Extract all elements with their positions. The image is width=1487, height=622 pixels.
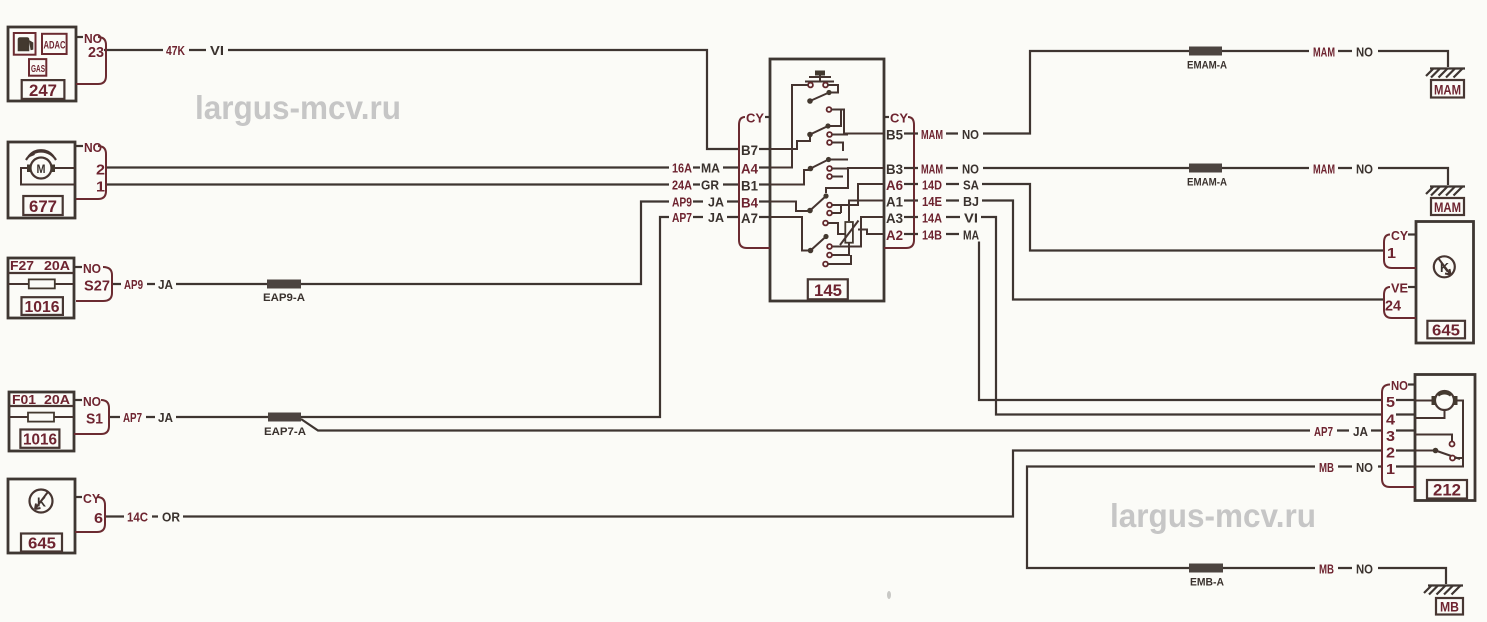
motor internal wiring [1415, 400, 1433, 402]
145 interior wires right [826, 168, 884, 247]
wire label NO (bottom) [1352, 562, 1378, 577]
svg-text:F27: F27 [10, 258, 34, 273]
svg-text:NO: NO [1356, 460, 1373, 475]
145 interior: switch lever 3 [808, 157, 848, 179]
ground MB (bottom right) [1424, 586, 1463, 615]
svg-text:A3: A3 [886, 210, 903, 226]
svg-text:24: 24 [1385, 298, 1402, 315]
212 label box [1427, 480, 1467, 499]
svg-text:MAM: MAM [1434, 199, 1461, 215]
pin A6 [904, 183, 914, 185]
component 645 (right) control unit [1416, 222, 1474, 344]
svg-text:14E: 14E [922, 194, 942, 209]
svg-text:S27: S27 [84, 278, 110, 295]
svg-text:A7: A7 [741, 210, 758, 226]
svg-text:NO: NO [962, 162, 979, 177]
svg-text:AP9: AP9 [124, 277, 143, 292]
wire label NO (top right) [1352, 45, 1378, 60]
1016 label box [22, 297, 63, 315]
ground MAM (top right) [1426, 69, 1465, 98]
pin A2 [904, 233, 914, 235]
wire MB-NO from 212 pin 1 to EMB-A [1027, 467, 1446, 585]
connector NO / pins 2,1 of 677 [76, 140, 106, 199]
svg-text:1016: 1016 [23, 432, 57, 449]
wire label MB (212 pin 1) [1315, 460, 1338, 475]
svg-text:2: 2 [96, 162, 105, 179]
wire 16A-MA from 677 pin 2 to 145 pin A4 [106, 166, 739, 168]
component 677 wiper motor [8, 142, 75, 218]
wire MAM-NO from 145 pin B5 to ground MAM [914, 51, 1448, 134]
wire label NO (B3) [958, 162, 983, 177]
motor wiring to pins [55, 167, 75, 169]
wire 14E-BJ from 145 pin A1 to 645 pin 24 [914, 201, 1384, 300]
svg-text:B5: B5 [886, 127, 903, 143]
svg-text:MB: MB [1440, 599, 1459, 615]
svg-text:CY: CY [83, 491, 100, 506]
wire label BJ [959, 194, 982, 209]
wire label JA (at 145 A7) [703, 210, 727, 225]
svg-text:EMB-A: EMB-A [1190, 577, 1224, 589]
ground MAM (second right) [1426, 187, 1465, 216]
1016 label box [20, 430, 59, 448]
wire MAM-NO from 145 pin B3 to ground MAM [914, 168, 1448, 185]
145 interior wires left [770, 85, 810, 251]
connector CY / pin 6 of 645 [75, 491, 105, 532]
wire label JA (left) [155, 277, 176, 292]
motor M circle [31, 158, 52, 179]
247 ADAC box [42, 34, 67, 54]
component F27 20A fuse 1016 [8, 258, 74, 318]
svg-text:MAM: MAM [1313, 45, 1335, 60]
wire label 14C [124, 510, 152, 525]
component 212 rear wiper motor [1415, 375, 1475, 501]
pin B1 [759, 183, 770, 185]
wire label AP7 (212 pin 3) [1310, 424, 1337, 439]
247 label box [22, 80, 65, 99]
K circle glyph [30, 490, 53, 513]
wire label JA (at 145 B4) [703, 195, 727, 210]
wire label MAM (second right) [1309, 162, 1338, 177]
pin A4 [759, 166, 770, 168]
svg-text:MB: MB [1319, 562, 1334, 577]
svg-text:20A: 20A [44, 392, 71, 407]
wire label 14D [918, 178, 946, 193]
splice EAP9-A [263, 280, 305, 305]
145 interior: switch lever 1 [807, 85, 884, 134]
svg-text:VI: VI [964, 211, 978, 226]
svg-text:23: 23 [88, 44, 104, 61]
svg-text:NO: NO [1356, 45, 1373, 60]
pin A1 [904, 199, 914, 201]
wire label MA [700, 161, 723, 176]
svg-text:CY: CY [1391, 228, 1408, 243]
svg-text:JA: JA [708, 210, 725, 225]
svg-text:VI: VI [210, 43, 224, 58]
svg-text:145: 145 [814, 281, 842, 300]
wire label JA (left S1) [155, 410, 176, 425]
connector CY / pin 1 of 645 right [1384, 228, 1416, 268]
wire AP7-JA branch from splice EAP7-A to 212 pin 3 [301, 419, 1382, 431]
wire AP7-JA from S1 to 145 pin A7 [110, 217, 739, 417]
svg-text:4: 4 [1386, 412, 1396, 429]
svg-text:S1: S1 [86, 411, 103, 428]
wire label MAM (B5) [918, 127, 946, 142]
145 interior: switch lever 2 [807, 110, 848, 152]
svg-text:A6: A6 [886, 177, 903, 193]
wire 14D-SA from 145 pin A6 to 645 pin 1 [914, 184, 1384, 251]
connector CY left of 145 [739, 111, 770, 249]
svg-text:JA: JA [158, 277, 174, 292]
park switch lever from pin 2 [1415, 450, 1433, 452]
svg-text:3: 3 [1386, 428, 1395, 445]
svg-text:VE: VE [1391, 281, 1408, 296]
wire 47K-VI from 247 pin 23 to 145 pin B7 [104, 50, 739, 149]
svg-text:14A: 14A [922, 211, 943, 226]
svg-text:EAP7-A: EAP7-A [264, 426, 306, 438]
wire label AP7 (at 145 A7) [669, 210, 693, 225]
fuse F27 symbol [8, 283, 74, 285]
splice EMB-A [1189, 564, 1224, 589]
pin B7 [759, 148, 770, 150]
svg-text:F01: F01 [12, 392, 36, 407]
svg-text:CY: CY [890, 111, 908, 126]
svg-text:EMAM-A: EMAM-A [1187, 60, 1227, 72]
svg-text:NO: NO [84, 140, 102, 155]
svg-text:MAM: MAM [1434, 82, 1461, 98]
145 interior: switch lever 4 [807, 193, 848, 234]
svg-text:247: 247 [29, 81, 57, 100]
145 interior: push switch top [805, 71, 834, 88]
svg-text:MAM: MAM [921, 162, 943, 177]
wire label NO (B5) [958, 127, 983, 142]
wire label 47K [163, 43, 189, 58]
pin B4 [759, 200, 770, 202]
svg-text:A2: A2 [886, 227, 903, 243]
svg-text:14D: 14D [922, 178, 942, 193]
connector VE / pin 24 of 645 right [1384, 281, 1416, 319]
wire label 16A [669, 161, 693, 176]
svg-text:677: 677 [29, 197, 57, 216]
645 label box [1427, 321, 1465, 339]
svg-text:NO: NO [1356, 162, 1373, 177]
connector NO / S1 [74, 394, 109, 434]
svg-text:20A: 20A [44, 258, 71, 273]
connector NO / pin 23 of 247 [76, 31, 106, 84]
svg-text:NO: NO [1356, 562, 1373, 577]
svg-text:OR: OR [162, 510, 181, 525]
svg-text:largus-mcv.ru: largus-mcv.ru [195, 89, 401, 126]
wire label JA (212 pin 3) [1349, 424, 1371, 439]
component 645 (bottom left) control unit [8, 479, 75, 553]
fuse F01 symbol [9, 416, 74, 418]
connector NO / pins 5,4,3,2,1 of 212 [1382, 378, 1415, 487]
component F01 20A fuse 1016 [9, 392, 74, 451]
svg-text:NO: NO [962, 127, 979, 142]
svg-text:1: 1 [96, 179, 105, 196]
svg-text:SA: SA [963, 178, 980, 193]
wire label 24A [669, 178, 693, 193]
svg-text:14B: 14B [922, 228, 942, 243]
svg-text:largus-mcv.ru: largus-mcv.ru [1110, 497, 1316, 534]
svg-text:JA: JA [708, 195, 725, 210]
svg-text:AP9: AP9 [672, 195, 692, 210]
wire 14A-VI from 145 pin A3 to 212 pin 4 [914, 217, 1382, 415]
svg-text:14C: 14C [127, 510, 149, 525]
svg-text:MB: MB [1319, 460, 1334, 475]
svg-text:B1: B1 [741, 178, 758, 194]
svg-text:1016: 1016 [25, 299, 60, 316]
677 label box [23, 196, 62, 215]
svg-text:1: 1 [1386, 461, 1395, 478]
svg-text:ADAC: ADAC [44, 40, 66, 52]
svg-text:A1: A1 [886, 194, 903, 210]
svg-text:AP7: AP7 [123, 410, 142, 425]
wire label OR [158, 510, 183, 525]
svg-text:645: 645 [28, 536, 56, 553]
wire label 14A [918, 211, 946, 226]
wire label MB (bottom) [1315, 562, 1338, 577]
247 pump pictogram box [14, 33, 36, 55]
svg-text:BJ: BJ [963, 194, 979, 209]
wire label 14E [918, 194, 946, 209]
645 label box [21, 534, 62, 552]
wire label AP9 (at 145) [669, 195, 693, 210]
park switch contact from pin 3 [1415, 435, 1452, 442]
wire label MAM (top right) [1309, 45, 1338, 60]
wire label 14B [918, 228, 946, 243]
svg-text:GAS: GAS [31, 64, 45, 75]
svg-text:NO: NO [1391, 378, 1408, 393]
svg-text:AP7: AP7 [672, 210, 692, 225]
wire label NO (second right) [1352, 162, 1378, 177]
wire 14C-OR from 645 pin 6 to 212 pin 2 [105, 451, 1382, 517]
svg-text:6: 6 [94, 510, 103, 527]
pin B5 [904, 132, 914, 134]
145 interior: resistor [832, 221, 859, 256]
wire label MA (A2) [959, 228, 982, 243]
145 label box [808, 279, 848, 299]
stray mark [887, 591, 891, 599]
wire label SA [959, 178, 982, 193]
svg-text:16A: 16A [672, 161, 693, 176]
svg-text:2: 2 [1386, 445, 1395, 462]
pin A7 [759, 216, 770, 218]
wire label AP7 (left) [120, 410, 146, 425]
wire 14B-MA from 145 pin A2 to 212 pin 5 [914, 234, 1382, 400]
svg-text:JA: JA [1353, 424, 1369, 439]
K circle glyph [1434, 256, 1455, 277]
wire label MAM (B3) [918, 162, 946, 177]
svg-text:JA: JA [158, 410, 174, 425]
145 interior: switch lever 5 [808, 234, 851, 267]
svg-text:M: M [37, 162, 46, 176]
wire label NO (212 pin 1) [1352, 460, 1378, 475]
connector CY right of 145 [884, 111, 914, 249]
svg-text:GR: GR [701, 178, 720, 193]
svg-text:MAM: MAM [1313, 162, 1335, 177]
wire label GR [700, 178, 723, 193]
wire AP9-JA from S27 to 145 pin B4 [112, 202, 739, 285]
splice EMAM-A (top) [1187, 47, 1227, 72]
svg-text:645: 645 [1432, 323, 1460, 340]
wire label VI [206, 43, 228, 58]
247 GAS box [29, 59, 46, 76]
svg-text:B4: B4 [741, 195, 758, 211]
svg-text:EMAM-A: EMAM-A [1187, 177, 1227, 189]
svg-text:24A: 24A [672, 178, 693, 193]
svg-text:MAM: MAM [921, 127, 943, 142]
svg-text:1: 1 [1387, 245, 1396, 262]
svg-text:NO: NO [83, 394, 101, 409]
component 247 fuel sender unit [8, 27, 76, 101]
svg-text:MA: MA [701, 161, 721, 176]
wire 24A-GR from 677 pin 1 to 145 pin B1 [106, 183, 739, 185]
svg-text:A4: A4 [741, 161, 758, 177]
svg-text:NO: NO [83, 261, 101, 276]
svg-text:CY: CY [746, 111, 764, 126]
svg-text:AP7: AP7 [1314, 424, 1333, 439]
pin A3 [904, 216, 914, 218]
component 145 wiper stalk switch [770, 59, 884, 301]
svg-text:B3: B3 [886, 161, 903, 177]
splice EAP7-A [264, 413, 306, 439]
pin B3 [904, 167, 914, 169]
svg-text:212: 212 [1433, 481, 1461, 500]
svg-text:47K: 47K [166, 43, 185, 58]
svg-text:5: 5 [1386, 394, 1395, 411]
connector NO / S27 [75, 261, 112, 301]
splice EMAM-A (second) [1187, 164, 1227, 189]
motor circle with brushes [1435, 391, 1454, 410]
wire label AP9 (left) [121, 277, 147, 292]
svg-text:B7: B7 [741, 142, 758, 158]
wire label VI (A3) [960, 211, 981, 226]
svg-text:EAP9-A: EAP9-A [263, 292, 305, 304]
svg-text:MA: MA [963, 228, 979, 243]
